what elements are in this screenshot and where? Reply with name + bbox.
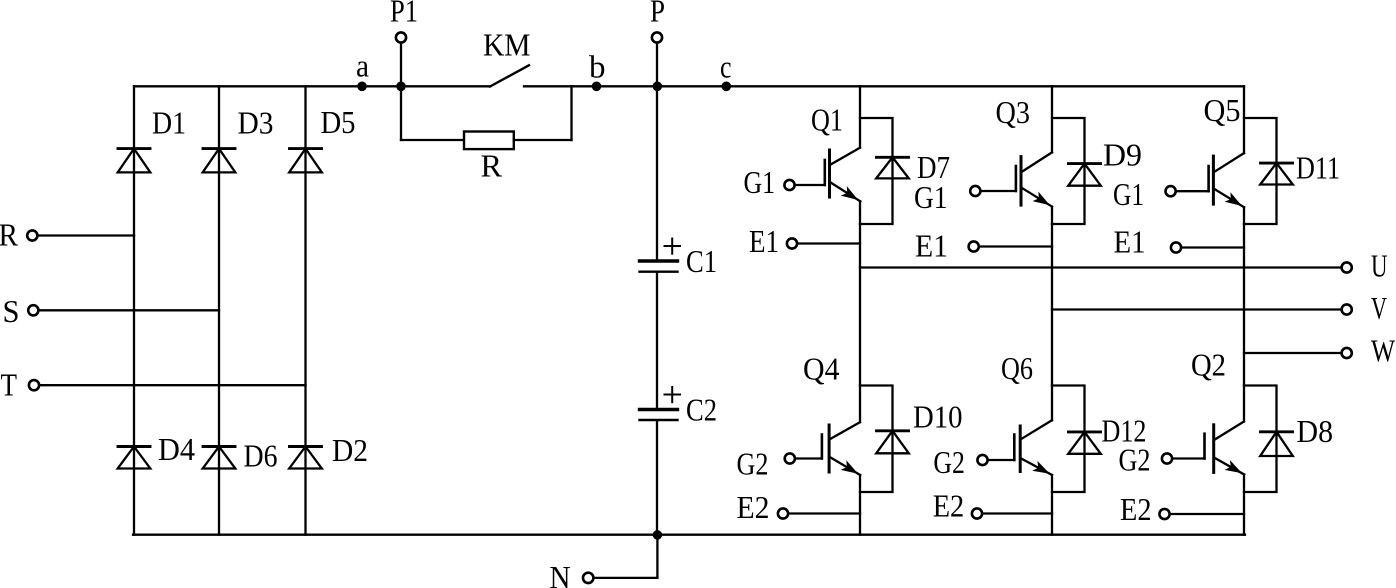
svg-text:Q2: Q2 — [1191, 347, 1226, 383]
svg-text:W: W — [1371, 333, 1396, 369]
svg-text:E1: E1 — [915, 228, 948, 264]
wire D12 branch (bottom IGBT freewheel loop) — [1052, 386, 1085, 493]
svg-text:Q5: Q5 — [1204, 92, 1241, 128]
wire D9 branch (top IGBT freewheel loop) — [1052, 118, 1085, 224]
node b junction — [592, 82, 602, 92]
svg-text:c: c — [720, 49, 732, 85]
svg-text:D1: D1 — [152, 105, 186, 141]
terminal W — [1342, 348, 1352, 358]
wire resistor branch bottom right — [514, 139, 572, 141]
node P1 rail junction — [396, 82, 406, 92]
wire rectifier leg A vertical — [133, 86, 135, 534]
wire leg2 collector vertical (top) — [1051, 86, 1053, 152]
wire emitter lead Q5 — [1182, 246, 1245, 248]
svg-text:Q6: Q6 — [1001, 350, 1033, 386]
svg-text:D6: D6 — [244, 438, 278, 474]
svg-text:V: V — [1371, 290, 1387, 326]
diode D6 — [203, 447, 236, 469]
svg-text:KM: KM — [483, 27, 531, 63]
wire leg1 collector vertical (top) — [859, 86, 861, 147]
svg-text:D10: D10 — [913, 399, 963, 435]
capacitor C1 — [640, 261, 678, 272]
wire gate lead Q5 — [1176, 190, 1209, 192]
wire bottom rail — [133, 534, 1245, 536]
wire T input to leg C — [41, 384, 306, 386]
wire output U — [860, 266, 1342, 268]
diode D3 — [203, 149, 236, 173]
wire resistor branch left drop — [400, 86, 402, 140]
wire output W — [1244, 352, 1342, 354]
node c junction — [722, 82, 732, 92]
diode D1 — [118, 149, 151, 173]
svg-text:S: S — [3, 293, 20, 329]
node a junction — [357, 82, 367, 92]
diode D4 — [118, 447, 151, 469]
diode D7 — [876, 157, 909, 178]
wire gate lead Q4 — [795, 457, 822, 459]
node N bus junction — [653, 530, 663, 540]
svg-text:E2: E2 — [1120, 491, 1152, 527]
polarity plus C2 — [665, 387, 681, 402]
svg-text:D9: D9 — [1103, 137, 1142, 173]
svg-text:Q3: Q3 — [996, 94, 1031, 130]
polarity plus C1 — [665, 239, 681, 254]
wire emitter lead Q3 — [979, 245, 1052, 247]
wire P1 down to rail — [400, 43, 402, 87]
resistor R body — [464, 132, 514, 150]
wire C2 down to bottom rail — [656, 421, 658, 535]
wire resistor branch bottom left — [401, 139, 464, 141]
svg-text:T: T — [1, 366, 18, 402]
wire emitter lead Q2 — [1170, 513, 1244, 515]
wire D7 branch (top IGBT freewheel loop) — [860, 118, 893, 224]
terminal E1 of Q1 — [787, 238, 797, 248]
svg-text:b: b — [589, 49, 606, 85]
diode D12 — [1068, 432, 1101, 454]
svg-text:G2: G2 — [933, 444, 965, 480]
transistor Q3 (IGBT) — [1016, 152, 1052, 206]
terminal V — [1342, 304, 1352, 314]
transistor Q2 (IGBT) — [1205, 422, 1245, 475]
svg-text:E2: E2 — [933, 488, 965, 524]
terminal E2 of Q6 — [972, 508, 982, 518]
terminal U — [1342, 262, 1352, 272]
terminal G2 of Q4 — [785, 453, 795, 463]
wire gate lead Q2 — [1173, 457, 1205, 459]
terminal G1 of Q5 — [1166, 186, 1176, 196]
wire leg3 middle vertical — [1243, 207, 1245, 421]
wire emitter lead Q1 — [798, 242, 861, 244]
wire bus down to C1 — [656, 86, 658, 260]
wire N drop — [656, 535, 658, 578]
terminal E2 of Q4 — [778, 508, 788, 518]
terminal G1 of Q1 — [784, 180, 794, 190]
diode D2 — [289, 447, 322, 469]
svg-text:D5: D5 — [321, 104, 356, 140]
svg-text:P: P — [650, 0, 665, 29]
diode D5 — [289, 149, 322, 173]
node P rail junction — [653, 82, 663, 92]
terminal E1 of Q3 — [969, 241, 979, 251]
diode D10 — [876, 431, 909, 454]
terminal E2 of Q2 — [1159, 509, 1169, 519]
diode D11 — [1260, 163, 1293, 184]
svg-text:G1: G1 — [744, 164, 776, 200]
switch KM blade — [490, 65, 529, 86]
transistor Q1 (IGBT) — [825, 148, 861, 202]
wire gate lead Q1 — [795, 184, 825, 186]
terminal E1 of Q5 — [1171, 242, 1181, 252]
svg-text:G2: G2 — [1119, 442, 1151, 478]
terminal G2 of Q2 — [1162, 453, 1172, 463]
terminal P1 — [396, 32, 406, 42]
svg-text:E1: E1 — [1114, 224, 1146, 260]
terminal P — [652, 32, 662, 42]
terminal G1 of Q3 — [970, 186, 980, 196]
wire gate lead Q6 — [988, 459, 1014, 461]
svg-text:G1: G1 — [914, 179, 948, 215]
capacitor C2 — [640, 410, 678, 421]
wire output V — [1052, 308, 1342, 310]
wire S input to leg B — [40, 309, 219, 311]
wire leg2 emitter vertical (bottom) — [1051, 475, 1053, 535]
svg-text:P1: P1 — [390, 0, 418, 29]
svg-text:Q1: Q1 — [811, 102, 843, 138]
svg-text:C2: C2 — [686, 392, 717, 428]
svg-text:Q4: Q4 — [803, 351, 840, 387]
wire R input to leg A — [39, 234, 134, 236]
svg-text:D8: D8 — [1297, 413, 1334, 449]
svg-text:D3: D3 — [238, 105, 274, 141]
wire emitter lead Q6 — [983, 512, 1053, 514]
wire top rail right segment — [524, 85, 1244, 87]
transistor Q5 (IGBT) — [1209, 153, 1244, 207]
svg-text:E1: E1 — [749, 223, 779, 259]
diode D9 — [1068, 164, 1101, 186]
wire between C1 and C2 — [656, 273, 658, 409]
transistor Q6 (IGBT) — [1014, 420, 1052, 475]
wire rectifier leg C vertical — [304, 86, 306, 534]
svg-text:D2: D2 — [332, 432, 368, 468]
wire leg2 middle vertical — [1051, 207, 1053, 421]
wire leg3 emitter vertical (bottom) — [1243, 475, 1245, 535]
svg-text:E2: E2 — [737, 489, 770, 525]
svg-text:a: a — [356, 48, 369, 84]
wire P down to rail — [656, 43, 658, 87]
svg-text:N: N — [550, 559, 571, 588]
terminal G2 of Q6 — [977, 455, 987, 465]
svg-text:R: R — [481, 148, 503, 184]
wire leg3 collector vertical (top) — [1243, 86, 1245, 153]
wire D8 branch (bottom IGBT freewheel loop) — [1244, 386, 1277, 493]
wire D10 branch (bottom IGBT freewheel loop) — [860, 386, 893, 493]
wire top rail left segment — [134, 85, 490, 87]
wire gate lead Q3 — [981, 190, 1016, 192]
wire leg1 emitter vertical (bottom) — [859, 475, 861, 535]
transistor Q4 (IGBT) — [822, 422, 860, 475]
wire N horizontal — [594, 577, 657, 579]
svg-text:G1: G1 — [1113, 176, 1144, 212]
terminal T input — [29, 380, 39, 390]
wire leg1 middle vertical — [859, 201, 861, 422]
svg-text:R: R — [0, 217, 19, 253]
svg-text:D11: D11 — [1296, 150, 1340, 186]
wire D11 branch (top IGBT freewheel loop) — [1244, 118, 1277, 224]
wire emitter lead Q4 — [789, 512, 861, 514]
terminal S input — [28, 305, 38, 315]
terminal N — [583, 573, 593, 583]
wire rectifier leg B vertical — [218, 86, 220, 534]
terminal R input — [27, 230, 37, 240]
diode D8 — [1260, 432, 1293, 456]
svg-text:G2: G2 — [737, 446, 769, 482]
svg-text:C1: C1 — [686, 243, 717, 279]
svg-text:D4: D4 — [158, 431, 195, 467]
svg-text:U: U — [1371, 248, 1388, 284]
wire resistor branch right riser — [570, 86, 572, 140]
